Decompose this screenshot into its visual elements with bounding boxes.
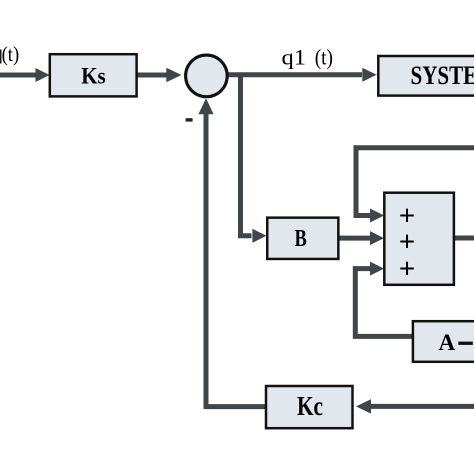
svg-text:q1: q1: [282, 44, 307, 69]
svg-text:A: A: [439, 330, 456, 355]
svg-text:B: B: [295, 225, 307, 252]
svg-text:Ks: Ks: [81, 64, 105, 90]
svg-text:(t): (t): [315, 44, 333, 69]
svg-text:SYSTEM: SYSTEM: [411, 61, 474, 90]
svg-text:(t): (t): [2, 42, 20, 66]
svg-text:+: +: [399, 253, 416, 285]
svg-text:Kc: Kc: [297, 391, 323, 421]
